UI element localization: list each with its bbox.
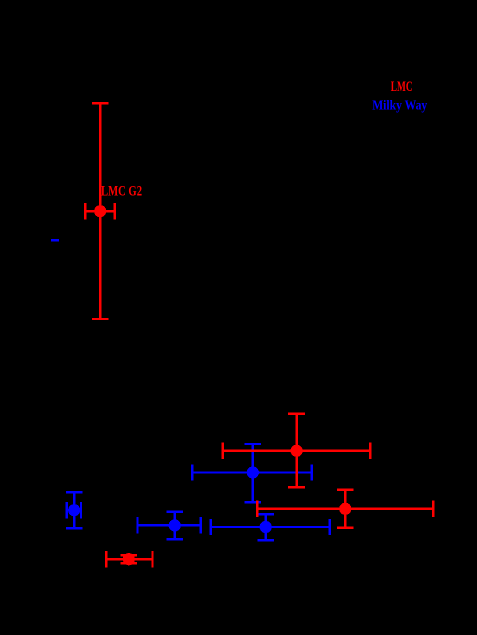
data point B (red, mid-right) — [223, 414, 371, 487]
data point G (blue, lower centre) — [211, 514, 330, 540]
data point D (blue, far left) — [66, 492, 83, 528]
data point C (blue, centre) — [192, 444, 312, 502]
svg-text:Milky Way: Milky Way — [372, 97, 427, 112]
wire: vertical error bar — [99, 103, 101, 319]
data point LMC G2 (red) — [85, 103, 115, 319]
data point F (blue, lower left-centre) — [138, 512, 201, 540]
wire: horizontal error bar — [85, 210, 115, 212]
data point E (red, right) — [257, 490, 433, 528]
svg-text:LMC: LMC — [391, 79, 413, 95]
node: small blue dash marker (left middle) — [51, 239, 59, 241]
svg-text:LMC G2: LMC G2 — [101, 183, 142, 199]
data point H (red, bottom left) — [106, 551, 152, 567]
